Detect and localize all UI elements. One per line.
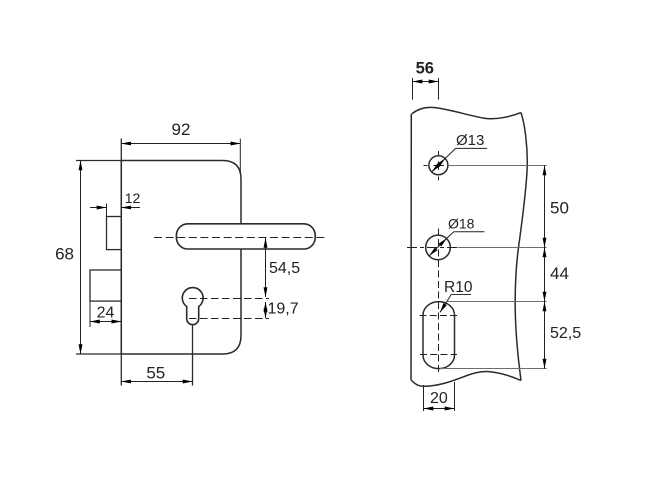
vertical dashed centerline through O18 and slot xyxy=(438,229,440,376)
dimension 12 left arrow xyxy=(90,207,107,209)
svg-text:92: 92 xyxy=(172,120,191,139)
extension line slot bottom to chain xyxy=(440,368,547,370)
svg-text:52,5: 52,5 xyxy=(550,325,581,342)
svg-text:24: 24 xyxy=(97,305,115,322)
svg-text:19,7: 19,7 xyxy=(268,301,299,318)
dimension 56 extension lines xyxy=(412,78,414,100)
dimension 20 extension lines xyxy=(423,385,425,411)
body top edge extended left (extension for 68) xyxy=(76,160,121,162)
dimension 68 line xyxy=(80,161,82,355)
hole O13 center cross ticks xyxy=(424,165,428,167)
svg-text:Ø18: Ø18 xyxy=(448,216,475,232)
svg-text:68: 68 xyxy=(55,245,74,264)
svg-text:50: 50 xyxy=(550,199,569,218)
dimension 55 line xyxy=(121,381,192,383)
dimension 24 line xyxy=(90,321,121,323)
dimension 92 extension line right xyxy=(239,139,241,175)
slot bottom arc center dashed cross xyxy=(420,354,457,356)
dashed line keyhole bottom center xyxy=(189,318,269,320)
handle lever (white fill hides body edge) xyxy=(176,224,315,249)
O18 diameter arrows xyxy=(429,238,446,255)
lock body outline xyxy=(121,161,241,355)
handle dashed centerline xyxy=(154,237,327,239)
O18 horizontal dashed centerline xyxy=(407,247,459,249)
keyhole center extension line down (for 55) xyxy=(192,325,194,385)
extension line slot top to chain xyxy=(446,301,547,303)
O13 diameter arrows xyxy=(432,159,445,172)
euro cylinder keyhole xyxy=(182,288,203,325)
plate top wavy edge xyxy=(412,107,521,118)
dimension 44 line xyxy=(544,248,546,302)
extension line from O13 to chain xyxy=(448,165,547,167)
svg-text:56: 56 xyxy=(416,60,434,78)
hole O13 circle xyxy=(429,156,448,175)
dimension 52,5 line xyxy=(544,302,546,369)
R10 leader arrow xyxy=(440,295,451,313)
slot top arc center dashed cross xyxy=(420,315,458,317)
dimension 54,5 line xyxy=(265,238,267,297)
svg-text:54,5: 54,5 xyxy=(269,260,300,277)
svg-text:R10: R10 xyxy=(444,279,473,296)
dimension 56 line xyxy=(413,81,439,83)
dimension 20 line xyxy=(424,408,455,410)
dimension 19,7 line xyxy=(265,302,267,318)
plate left edge xyxy=(410,114,412,380)
extension line from O18 to chain xyxy=(458,247,547,249)
deadbolt rectangle xyxy=(90,270,121,301)
plate bottom wavy break edge xyxy=(411,372,521,387)
svg-text:55: 55 xyxy=(146,364,165,383)
dimension 12 right arrow xyxy=(121,207,140,209)
latch bolt rectangle xyxy=(107,217,122,250)
dashed line keyhole circle center xyxy=(189,298,269,300)
body left edge extended (extension line for 92 top and 55 bottom) xyxy=(120,139,122,386)
dimension 50 line xyxy=(544,166,546,248)
hole O18 circle xyxy=(426,235,451,260)
dimension 92 line xyxy=(121,143,240,145)
plate right wavy break edge xyxy=(515,113,527,381)
slot hole R10 obround xyxy=(423,302,455,369)
svg-text:20: 20 xyxy=(430,390,448,407)
dimension 12 extension line xyxy=(106,204,108,217)
body bottom edge extended left (extension for 68) xyxy=(76,353,121,355)
dimension 24 extension line xyxy=(89,301,91,327)
O13 leader line xyxy=(445,148,487,158)
svg-text:44: 44 xyxy=(550,264,569,283)
svg-text:Ø13: Ø13 xyxy=(456,132,484,149)
O18 leader line xyxy=(447,232,485,239)
R10 leader shoulder xyxy=(451,294,471,296)
svg-text:12: 12 xyxy=(125,190,141,206)
